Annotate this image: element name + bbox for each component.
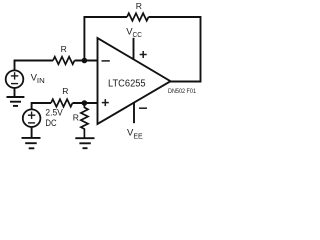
op-amp non-inverting plus sign <box>102 99 109 106</box>
wire VCC pin stub <box>133 38 135 60</box>
wire feedback vertical from inverting node up <box>84 17 127 61</box>
wire feedback top right <box>149 17 201 82</box>
svg-text:R: R <box>73 113 79 123</box>
resistor R input (non-inverting) <box>51 99 73 107</box>
node non-inverting junction dot <box>82 100 88 106</box>
svg-text:R: R <box>62 86 68 96</box>
source 2.5V DC circle <box>23 109 41 127</box>
ground (R to ground) <box>75 138 94 148</box>
resistor R input (inverting) <box>53 57 75 65</box>
wire 2.5V branch to resistor <box>32 103 51 110</box>
wire inverting input from VIN <box>15 61 54 70</box>
op-amp inverting minus sign <box>102 60 110 62</box>
wire VIN source bottom stub <box>14 88 16 97</box>
op-amp VCC plus sign <box>140 51 147 58</box>
wire 2.5V source bottom stub <box>31 127 33 138</box>
resistor R feedback zigzag <box>127 13 149 21</box>
svg-text:2.5V: 2.5V <box>45 107 63 118</box>
svg-text:R: R <box>61 44 67 54</box>
svg-text:LTC6255: LTC6255 <box>108 78 146 89</box>
node inverting junction dot <box>82 58 88 64</box>
svg-text:DC: DC <box>45 118 56 129</box>
wire inverting input to op-amp <box>75 60 99 62</box>
2.5V source plus sign <box>28 112 35 123</box>
ground (VIN source) <box>7 97 25 106</box>
resistor R to ground (vertical) <box>81 103 88 138</box>
ground (2.5V source) <box>22 138 41 148</box>
VIN source plus sign <box>11 72 18 83</box>
op-amp U1 triangle <box>98 38 171 124</box>
source VIN circle <box>6 70 24 88</box>
wire VEE pin stub <box>133 103 135 123</box>
svg-text:R: R <box>136 1 142 11</box>
op-amp VEE minus sign <box>139 107 147 109</box>
wire non-inverting input to op-amp <box>73 102 99 104</box>
svg-text:DN502 F01: DN502 F01 <box>168 88 196 95</box>
